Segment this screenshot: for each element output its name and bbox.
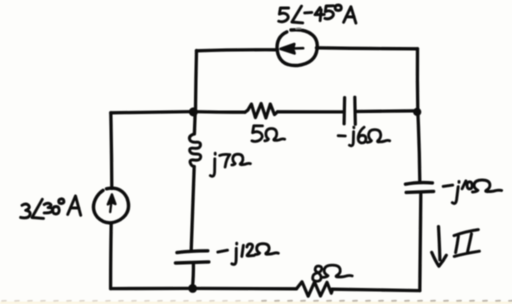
wire right vertical upper (top corner to node C)	[416, 49, 420, 111]
label capacitor C1 value -j6Ω	[338, 127, 390, 146]
capacitor C2 (-j12 ohm) plates	[176, 251, 209, 263]
node D junction dot	[188, 284, 197, 293]
label resistor R1 value 5Ω	[252, 126, 285, 142]
faint pen smudge below label	[296, 27, 300, 29]
wire middle vertical: node B to inductor L1	[193, 112, 197, 134]
label current I2 (Ⅱ glyph)	[454, 230, 479, 257]
wire right vertical: capacitor C3 to bottom corner	[420, 194, 421, 290]
current source IS1 arrow (points left)	[281, 44, 304, 53]
wire top horizontal left segment	[197, 50, 278, 51]
label inductor L1 value j7Ω	[210, 153, 250, 176]
current I2 arrow (points down)	[432, 227, 447, 267]
wire middle vertical: capacitor C2 to node D	[192, 263, 193, 288]
current source IS1 circle	[277, 30, 317, 66]
wire left vertical upper (corner to source IS2 top)	[111, 113, 112, 189]
label source IS1 value 5∠-45°A	[279, 5, 356, 23]
label capacitor C2 value -j12Ω	[218, 243, 278, 264]
current source IS2 circle	[93, 188, 128, 223]
label resistor R2 value 8Ω	[313, 265, 353, 281]
wire middle horizontal: capacitor C1 to node C	[356, 109, 418, 113]
wire middle horizontal: left corner to node B	[111, 112, 193, 113]
wire bottom: resistor R2 to right corner	[332, 289, 420, 290]
faint notebook dotted rule at bottom	[2, 300, 253, 302]
resistor R1 (5 ohm) zigzag	[245, 104, 278, 119]
wire bottom: left corner to node D	[111, 287, 192, 291]
wire bottom: node D to resistor R2	[192, 287, 297, 291]
warm paper tint at bottom edge	[0, 302, 512, 304]
node B junction dot	[189, 107, 198, 116]
node C junction dot	[413, 108, 421, 116]
wire middle horizontal: resistor R1 to capacitor C1	[278, 110, 345, 113]
label capacitor C3 value -j10Ω	[443, 180, 501, 203]
current source IS2 arrow (points up)	[108, 194, 116, 212]
wire top-left vertical (node B to top source)	[196, 51, 197, 111]
wire middle vertical: inductor L1 to capacitor C2	[191, 167, 194, 251]
capacitor C1 (-j6 ohm) plates	[344, 97, 355, 124]
capacitor C3 (-j10 ohm) plates	[406, 183, 434, 193]
wire middle horizontal: node B to resistor R1	[193, 110, 246, 114]
wire left vertical lower (source bottom to corner)	[109, 224, 113, 289]
label source IS2 value 3∠30°A	[21, 196, 81, 219]
wire right vertical: node C to capacitor C3	[418, 111, 420, 181]
inductor L1 (j7 ohm) coil	[189, 134, 200, 167]
resistor R2 (8 ohm) zigzag	[297, 282, 333, 296]
wire top horizontal right segment	[317, 48, 418, 49]
